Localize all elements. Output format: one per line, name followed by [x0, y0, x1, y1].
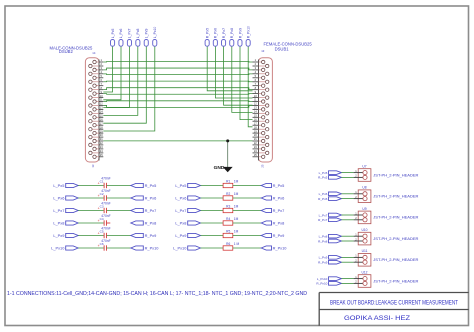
- pin 22 of DSUB1: [253, 141, 269, 146]
- svg-text:U9: U9: [362, 207, 366, 211]
- pin 19 of DSUB1: [253, 129, 265, 135]
- port L_Px6 (cap row): [53, 196, 78, 201]
- svg-text:L_Px6: L_Px6: [53, 196, 64, 201]
- pin 8 of DSUB2: [89, 86, 104, 92]
- pin 9 of DSUB1: [253, 90, 265, 96]
- test point R_Px10: [246, 26, 250, 46]
- pin 13 of DSUB1: [253, 106, 265, 112]
- port R_Px8 (resistor row): [261, 221, 284, 226]
- svg-text:R_Px9: R_Px9: [318, 261, 328, 265]
- svg-text:470nF: 470nF: [101, 176, 110, 180]
- svg-text:L_Px5: L_Px5: [175, 183, 186, 188]
- wire: [233, 185, 261, 187]
- wire: [342, 278, 354, 280]
- svg-text:13: 13: [261, 49, 265, 53]
- port L_Px9 (resistor row): [175, 233, 200, 238]
- pin 14 of DSUB2: [89, 110, 104, 116]
- svg-text:R2: R2: [226, 192, 230, 196]
- pin 18 of DSUB1: [253, 125, 269, 131]
- resistor R6 1M: [223, 242, 239, 250]
- pin 11 of DSUB1: [253, 98, 265, 104]
- svg-text:1M: 1M: [234, 205, 239, 209]
- pin 16 of DSUB1: [253, 118, 269, 123]
- wire: [107, 235, 131, 237]
- pin 8 of DSUB1: [253, 86, 269, 92]
- pin 11 of DSUB2: [93, 98, 104, 104]
- svg-text:13: 13: [91, 164, 95, 168]
- wire: [342, 219, 354, 221]
- port R_Px5 (cap row): [131, 183, 156, 188]
- pin 17 of DSUB1: [253, 121, 265, 127]
- pin 2 of DSUB1: [253, 62, 269, 68]
- svg-text:470nF: 470nF: [101, 201, 110, 205]
- svg-text:GOPIKA ASSI- HEZ: GOPIKA ASSI- HEZ: [344, 315, 410, 322]
- resistor R2 1M: [223, 192, 238, 200]
- svg-text:L_Px7: L_Px7: [319, 213, 328, 217]
- svg-text:R_Px6: R_Px6: [318, 197, 328, 201]
- svg-text:470nF: 470nF: [101, 214, 110, 218]
- wire 1:1 net row 2: [103, 68, 252, 70]
- resistor R4 1M: [223, 217, 238, 225]
- svg-text:JST-PH_2-PIN_HEADER: JST-PH_2-PIN_HEADER: [373, 172, 418, 177]
- svg-text:R_Px7: R_Px7: [273, 208, 285, 213]
- svg-text:DSUB2: DSUB2: [59, 49, 74, 54]
- pin 2 of DSUB2: [89, 62, 104, 68]
- port L_Px10 (header row): [317, 277, 342, 281]
- label MALE-CONN-DSUB25 DSUB2: [49, 46, 95, 168]
- wire R_Px8 riser/staircase: [232, 46, 253, 112]
- port R_Px10 (resistor row): [261, 246, 287, 251]
- pin 6 of DSUB2: [89, 78, 104, 84]
- wire R_Px9 riser/staircase: [240, 46, 253, 119]
- wire: [342, 261, 354, 263]
- svg-text:L_Px9: L_Px9: [53, 233, 64, 238]
- capacitor C2 470nF: [98, 189, 111, 201]
- wire: [342, 176, 354, 178]
- port R_Px7 (cap row): [131, 208, 156, 213]
- port L_Px7 (header row): [319, 213, 342, 217]
- wire 1:1 net row 7: [103, 100, 252, 103]
- pin 15 of DSUB1: [253, 114, 265, 120]
- pin 13 of DSUB2: [93, 106, 104, 112]
- wire: [342, 214, 354, 216]
- port L_Px6 (resistor row): [175, 196, 200, 201]
- svg-text:R5: R5: [226, 230, 230, 234]
- pin 17 of DSUB2: [93, 121, 104, 127]
- pin 12 of DSUB2: [89, 102, 104, 108]
- svg-text:R_Px5: R_Px5: [145, 183, 157, 188]
- svg-text:R_Px9: R_Px9: [145, 233, 157, 238]
- header U10 JST-PH_2-PIN_HEADER: [354, 228, 419, 245]
- pin 20 of DSUB2: [89, 133, 104, 139]
- pin 12 of DSUB1: [253, 102, 269, 108]
- wire GND net row: [103, 140, 252, 142]
- wire GND drop: [227, 141, 229, 167]
- wire: [233, 197, 261, 199]
- pin 22 of DSUB2: [89, 141, 104, 146]
- wire L_Px7 riser/staircase: [103, 46, 129, 107]
- svg-text:1M: 1M: [234, 217, 239, 221]
- svg-text:U11: U11: [362, 249, 368, 253]
- svg-text:JST-PH_2-PIN_HEADER: JST-PH_2-PIN_HEADER: [373, 278, 418, 283]
- wire: [78, 210, 104, 212]
- svg-text:R_Px6: R_Px6: [214, 28, 218, 38]
- wire: [107, 185, 131, 187]
- svg-text:470nF: 470nF: [101, 239, 110, 243]
- wire: [342, 198, 354, 200]
- pin 7 of DSUB2: [93, 82, 104, 88]
- svg-text:L_Px9: L_Px9: [175, 233, 186, 238]
- connector DSUB2 MALE-CONN-DSUB25: [85, 58, 103, 162]
- wire: [107, 197, 131, 199]
- test point R_Px9: [238, 28, 242, 46]
- test point L_Px5: [111, 28, 115, 46]
- svg-text:R_Px5: R_Px5: [273, 183, 285, 188]
- pin 16 of DSUB2: [89, 118, 104, 123]
- pin 5 of DSUB1: [253, 74, 265, 80]
- port R_Px7 (header row): [318, 218, 341, 222]
- svg-text:L_Px6: L_Px6: [175, 196, 186, 201]
- pin 15 of DSUB2: [93, 114, 104, 120]
- wire L_Px10 riser/staircase: [103, 46, 155, 131]
- port L_Px7 (cap row): [53, 208, 78, 213]
- svg-text:R_Px8: R_Px8: [230, 28, 234, 38]
- pin 4 of DSUB2: [89, 70, 104, 76]
- test point R_Px7: [222, 28, 226, 46]
- pin 1 of DSUB2: [93, 58, 104, 64]
- pin 21 of DSUB1: [253, 137, 265, 143]
- svg-text:R4: R4: [226, 217, 230, 221]
- header U9 JST-PH_2-PIN_HEADER: [354, 207, 419, 224]
- port R_Px7 (resistor row): [261, 208, 284, 213]
- svg-text:U12: U12: [361, 270, 367, 274]
- svg-text:L_Px7: L_Px7: [175, 208, 186, 213]
- wire: [342, 172, 354, 174]
- port L_Px9 (cap row): [53, 233, 78, 238]
- test point L_Px10: [153, 27, 157, 47]
- wire L_Px9 riser/staircase: [103, 46, 146, 123]
- wire L_Px8 riser/staircase: [103, 46, 138, 115]
- pin 20 of DSUB1: [253, 133, 269, 139]
- svg-text:BREAK OUT BOARD:LEAKAGE CURREN: BREAK OUT BOARD:LEAKAGE CURRENT MEASUREM…: [330, 299, 458, 306]
- svg-text:R_Px6: R_Px6: [145, 196, 157, 201]
- pin 4 of DSUB1: [253, 70, 269, 76]
- svg-text:L_Px9: L_Px9: [145, 28, 149, 38]
- svg-text:14: 14: [92, 51, 96, 55]
- port L_Px10 (cap row): [51, 246, 78, 251]
- svg-text:DSUB1: DSUB1: [275, 46, 290, 51]
- port R_Px8 (header row): [318, 239, 341, 243]
- svg-text:L_Px10: L_Px10: [153, 27, 157, 39]
- port R_Px6 (cap row): [131, 196, 156, 201]
- svg-text:L_Px8: L_Px8: [53, 221, 64, 226]
- svg-text:L_Px5: L_Px5: [319, 171, 328, 175]
- pin 9 of DSUB2: [93, 90, 104, 96]
- svg-text:L_Px5: L_Px5: [53, 183, 64, 188]
- test point L_Px8: [136, 28, 140, 46]
- svg-text:1-1 CONNECTIONS:11-Cell_GND;14: 1-1 CONNECTIONS:11-Cell_GND;14-CAN-GND; …: [7, 291, 307, 297]
- svg-text:R_Px7: R_Px7: [222, 28, 226, 38]
- svg-text:L_Px5: L_Px5: [111, 28, 115, 38]
- test point R_Px8: [230, 28, 234, 46]
- header U8 JST-PH_2-PIN_HEADER: [354, 186, 419, 203]
- port R_Px9 (header row): [318, 260, 341, 264]
- wire: [201, 222, 224, 224]
- port L_Px7 (resistor row): [175, 208, 200, 213]
- port L_Px9 (header row): [319, 256, 342, 260]
- pin 21 of DSUB2: [93, 137, 104, 143]
- wire: [201, 197, 224, 199]
- port R_Px9 (cap row): [131, 233, 156, 238]
- svg-text:R_Px5: R_Px5: [318, 176, 328, 180]
- svg-text:R_Px10: R_Px10: [316, 282, 327, 286]
- wire R_Px5 riser/staircase: [207, 46, 252, 91]
- wire 1:1 net row 5: [103, 88, 252, 90]
- ground GND: [214, 165, 232, 172]
- svg-text:JST-PH_2-PIN_HEADER: JST-PH_2-PIN_HEADER: [373, 215, 418, 220]
- wire: [342, 256, 354, 258]
- wire: [78, 235, 104, 237]
- wire: [342, 235, 354, 237]
- svg-text:JST-PH_2-PIN_HEADER: JST-PH_2-PIN_HEADER: [373, 194, 418, 199]
- svg-text:R_Px6: R_Px6: [273, 196, 285, 201]
- wire: [201, 247, 224, 249]
- pin 10 of DSUB2: [89, 94, 104, 100]
- pin 3 of DSUB2: [93, 66, 104, 72]
- port L_Px8 (cap row): [53, 221, 78, 226]
- svg-text:470nF: 470nF: [101, 226, 110, 230]
- test point R_Px5: [205, 28, 209, 46]
- port R_Px8 (cap row): [131, 221, 156, 226]
- title block: [319, 293, 469, 326]
- pin 14 of DSUB1: [253, 110, 269, 116]
- pin 23 of DSUB1: [253, 145, 265, 150]
- pin 23 of DSUB2: [93, 145, 104, 150]
- port L_Px5 (header row): [319, 171, 342, 175]
- svg-text:R_Px10: R_Px10: [145, 246, 160, 251]
- svg-text:L_Px8: L_Px8: [136, 28, 140, 38]
- svg-text:JST-PH_2-PIN_HEADER: JST-PH_2-PIN_HEADER: [373, 257, 418, 262]
- pin 5 of DSUB2: [93, 74, 104, 80]
- svg-text:L_Px8: L_Px8: [319, 235, 328, 239]
- svg-text:R_Px7: R_Px7: [318, 218, 328, 222]
- port R_Px10 (cap row): [131, 246, 159, 251]
- wire: [201, 185, 224, 187]
- svg-text:L_Px6: L_Px6: [119, 28, 123, 38]
- wire: [233, 210, 261, 212]
- header U12 JST-PH_2-PIN_HEADER: [354, 270, 419, 287]
- junction GND node: [226, 139, 229, 142]
- pin 25 of DSUB1: [253, 153, 265, 159]
- wire L_Px5 riser/staircase: [103, 46, 112, 92]
- wire: [233, 247, 261, 249]
- header U7 JST-PH_2-PIN_HEADER: [354, 164, 419, 181]
- label FEMALE-CONN-DSUB25 DSUB1: [261, 41, 313, 167]
- svg-text:U10: U10: [361, 228, 367, 232]
- port R_Px6 (resistor row): [261, 196, 284, 201]
- port L_Px8 (resistor row): [175, 221, 200, 226]
- test point L_Px7: [127, 28, 131, 46]
- pin 3 of DSUB1: [253, 66, 265, 72]
- wire: [107, 247, 131, 249]
- port R_Px9 (resistor row): [261, 233, 284, 238]
- wire: [201, 210, 224, 212]
- test point L_Px9: [144, 28, 148, 46]
- wire: [201, 235, 224, 237]
- svg-text:R_Px10: R_Px10: [247, 26, 251, 38]
- svg-text:L_Px10: L_Px10: [51, 246, 65, 251]
- port L_Px6 (header row): [319, 192, 342, 196]
- pin 1 of DSUB1: [253, 58, 265, 64]
- port R_Px5 (header row): [318, 176, 341, 180]
- wire L_Px6 riser/staircase: [103, 46, 121, 100]
- capacitor C1 470nF: [98, 176, 111, 188]
- svg-text:L_Px7: L_Px7: [53, 208, 64, 213]
- pin 10 of DSUB1: [253, 94, 269, 100]
- svg-text:R6: R6: [226, 242, 230, 246]
- svg-text:1M: 1M: [234, 192, 239, 196]
- svg-text:R_Px7: R_Px7: [145, 208, 157, 213]
- port R_Px6 (header row): [318, 197, 341, 201]
- svg-text:R_Px8: R_Px8: [318, 239, 328, 243]
- wire: [342, 193, 354, 195]
- port R_Px5 (resistor row): [261, 183, 284, 188]
- pin 6 of DSUB1: [253, 78, 269, 84]
- wire: [78, 247, 104, 249]
- svg-text:1 M: 1 M: [234, 242, 240, 246]
- svg-text:R1: R1: [226, 180, 230, 184]
- svg-text:GND: GND: [214, 165, 225, 171]
- wire 1:1 net row 1: [103, 61, 252, 64]
- svg-text:R_Px9: R_Px9: [273, 233, 285, 238]
- svg-text:1M: 1M: [234, 180, 239, 184]
- svg-text:R_Px5: R_Px5: [206, 28, 210, 38]
- resistor R1 1M: [223, 180, 238, 188]
- port L_Px8 (header row): [319, 234, 342, 238]
- pin 7 of DSUB1: [253, 82, 265, 88]
- port L_Px5 (cap row): [53, 183, 78, 188]
- wire: [78, 222, 104, 224]
- svg-text:R_Px9: R_Px9: [238, 28, 242, 38]
- test point R_Px6: [213, 28, 217, 46]
- pin 18 of DSUB2: [89, 125, 104, 131]
- svg-text:JST-PH_2-PIN_HEADER: JST-PH_2-PIN_HEADER: [373, 236, 418, 241]
- wire 1:1 net row 4: [103, 80, 252, 83]
- svg-text:L_Px10: L_Px10: [317, 277, 328, 281]
- wire: [78, 197, 104, 199]
- resistor R3 1M: [223, 205, 238, 213]
- svg-text:R_Px8: R_Px8: [145, 221, 157, 226]
- capacitor C6 470nF: [98, 239, 111, 251]
- svg-text:L_Px9: L_Px9: [319, 256, 328, 260]
- svg-text:U7: U7: [362, 164, 366, 168]
- svg-text:R_Px8: R_Px8: [273, 221, 285, 226]
- wire: [233, 222, 261, 224]
- wire: [342, 240, 354, 242]
- svg-text:R_Px10: R_Px10: [273, 246, 288, 251]
- pin 24 of DSUB1: [253, 149, 269, 154]
- wire: [107, 210, 131, 212]
- capacitor C3 470nF: [98, 201, 111, 213]
- wire: [233, 235, 261, 237]
- svg-text:R3: R3: [226, 205, 230, 209]
- wire: [342, 282, 354, 284]
- pin 24 of DSUB2: [89, 149, 104, 154]
- svg-text:L_Px8: L_Px8: [175, 221, 186, 226]
- wire 1:1 net row 3: [103, 73, 252, 76]
- wire R_Px7 riser/staircase: [224, 46, 253, 105]
- svg-text:L_Px10: L_Px10: [173, 246, 187, 251]
- svg-text:470nF: 470nF: [101, 189, 110, 193]
- connector DSUB1 FEMALE-CONN-DSUB25: [253, 58, 273, 162]
- pin 25 of DSUB2: [93, 153, 104, 159]
- wire R_Px10 riser/staircase: [248, 46, 252, 127]
- wire 1:1 net row 8: [103, 105, 252, 107]
- svg-text:1M: 1M: [234, 230, 239, 234]
- port L_Px10 (resistor row): [173, 246, 200, 251]
- header U11 JST-PH_2-PIN_HEADER: [354, 249, 419, 266]
- svg-text:L_Px7: L_Px7: [128, 28, 132, 38]
- svg-text:25: 25: [261, 164, 265, 168]
- capacitor C4 470nF: [98, 214, 111, 226]
- test point L_Px6: [119, 28, 123, 46]
- svg-text:L_Px6: L_Px6: [319, 192, 328, 196]
- wire: [78, 185, 104, 187]
- port L_Px5 (resistor row): [175, 183, 200, 188]
- resistor R5 1M: [223, 230, 238, 238]
- wire R_Px6 riser/staircase: [215, 46, 252, 98]
- wire 1:1 net row 6: [103, 93, 252, 96]
- pin 19 of DSUB2: [93, 129, 104, 135]
- port R_Px10 (header row): [316, 282, 341, 286]
- capacitor C5 470nF: [98, 226, 111, 238]
- svg-text:U8: U8: [362, 186, 366, 190]
